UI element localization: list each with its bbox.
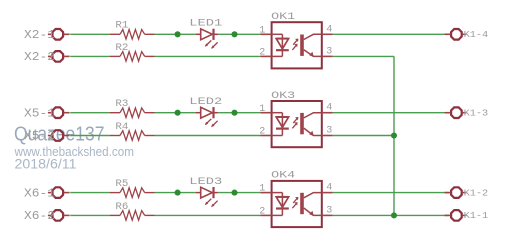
wire net row1 top: LED to OK1 pin1 <box>218 33 260 35</box>
junction row2 after LED2 <box>231 110 237 116</box>
svg-text:OK1: OK1 <box>271 11 295 23</box>
svg-text:K1-4: K1-4 <box>464 29 489 40</box>
junction row1 after R1 <box>175 31 181 37</box>
svg-text:R4: R4 <box>115 121 128 133</box>
svg-text:LED1: LED1 <box>189 18 222 30</box>
wire net row2 bottom: pad to resistor R4 <box>70 135 110 137</box>
optocoupler OK1 <box>260 22 332 68</box>
resistor R3 <box>110 108 155 118</box>
svg-text:K1-3: K1-3 <box>464 108 489 119</box>
junction row2 after R3 <box>175 110 181 116</box>
wire OK1 pin4 to pad <box>333 33 449 35</box>
wire net row2 top: resistor to LED <box>155 112 197 114</box>
svg-text:OK4: OK4 <box>271 170 295 182</box>
terminal pad K1-4 <box>445 29 467 40</box>
svg-text:2: 2 <box>259 127 265 138</box>
junction row3 after LED3 <box>231 190 237 196</box>
terminal pad K1-3 <box>445 107 467 118</box>
terminal pad K1-1 <box>445 210 467 221</box>
terminal pad X2-2 <box>48 51 70 62</box>
junction bus at OK4 pin3 <box>391 212 397 218</box>
svg-text:R6: R6 <box>115 201 128 213</box>
LED LED1 <box>196 29 218 49</box>
svg-text:X6-2: X6-2 <box>24 209 55 223</box>
terminal pad X5-2 <box>48 130 70 141</box>
resistor R1 <box>110 30 155 40</box>
svg-text:R1: R1 <box>115 20 128 32</box>
svg-text:R5: R5 <box>115 178 128 190</box>
svg-text:1: 1 <box>259 184 265 195</box>
svg-text:R2: R2 <box>115 42 128 54</box>
svg-text:X2-2: X2-2 <box>24 50 55 64</box>
wire OK1 pin3 to vertical bus <box>333 55 394 57</box>
LED LED3 <box>196 187 218 207</box>
terminal pad X5-1 <box>48 107 70 118</box>
svg-text:2018/6/11: 2018/6/11 <box>15 157 77 172</box>
svg-text:LED3: LED3 <box>189 176 222 188</box>
wire OK3 pin4 to pad <box>333 112 449 114</box>
wire net row3 top: LED to OK4 pin1 <box>218 192 260 194</box>
svg-text:X5-2: X5-2 <box>24 129 55 143</box>
wire net row1 bottom: pad to resistor R2 <box>70 55 110 57</box>
svg-text:3: 3 <box>326 206 332 217</box>
wire net row1 bottom: resistor to OK1 pin2 <box>155 55 261 57</box>
svg-text:4: 4 <box>326 24 332 35</box>
wire net row3 top: resistor to LED <box>155 192 197 194</box>
wire net row3 bottom: pad to resistor R6 <box>70 214 110 216</box>
svg-text:3: 3 <box>326 126 332 137</box>
resistor R2 <box>110 52 155 62</box>
resistor R4 <box>110 131 155 141</box>
svg-text:LED2: LED2 <box>189 96 222 108</box>
svg-text:1: 1 <box>259 25 265 36</box>
wire net row2 top: pad to resistor R3 <box>70 112 110 114</box>
svg-text:OK3: OK3 <box>271 90 295 102</box>
wire net row1 top: resistor to LED <box>155 33 197 35</box>
resistor R6 <box>110 211 155 221</box>
junction row1 after LED1 <box>231 31 237 37</box>
terminal pad X2-1 <box>48 29 70 40</box>
svg-text:4: 4 <box>326 183 332 194</box>
svg-text:R3: R3 <box>115 98 128 110</box>
terminal pad K1-2 <box>445 187 467 198</box>
junction row3 after R5 <box>175 190 181 196</box>
wire net row3 bottom: resistor to OK4 pin2 <box>155 214 261 216</box>
svg-text:2: 2 <box>259 207 265 218</box>
svg-text:K1-1: K1-1 <box>464 210 489 221</box>
LED LED2 <box>196 107 218 127</box>
svg-text:X6-1: X6-1 <box>24 186 55 200</box>
svg-text:3: 3 <box>326 47 332 58</box>
svg-text:2: 2 <box>259 48 265 59</box>
terminal pad X6-2 <box>48 210 70 221</box>
wire OK3 pin3 to vertical bus <box>333 135 394 137</box>
svg-text:K1-2: K1-2 <box>464 187 489 198</box>
wire net row2 bottom: resistor to OK3 pin2 <box>155 135 261 137</box>
svg-text:4: 4 <box>326 103 332 114</box>
svg-text:X5-1: X5-1 <box>24 106 55 120</box>
terminal pad X6-1 <box>48 187 70 198</box>
optocoupler OK3 <box>260 101 332 147</box>
wire vertical bus pin3 net <box>393 56 395 215</box>
optocoupler OK4 <box>260 181 332 227</box>
wire net row3 top: pad to resistor R5 <box>70 192 110 194</box>
wire OK4 pin4 to pad <box>333 192 449 194</box>
wire OK4 pin3 to pad K1-1 <box>333 214 449 216</box>
wire net row1 top: pad to resistor R1 <box>70 33 110 35</box>
wire net row2 top: LED to OK3 pin1 <box>218 112 260 114</box>
svg-text:X2-1: X2-1 <box>24 28 55 42</box>
svg-text:1: 1 <box>259 104 265 115</box>
resistor R5 <box>110 188 155 198</box>
junction bus at OK3 pin3 <box>391 132 397 138</box>
